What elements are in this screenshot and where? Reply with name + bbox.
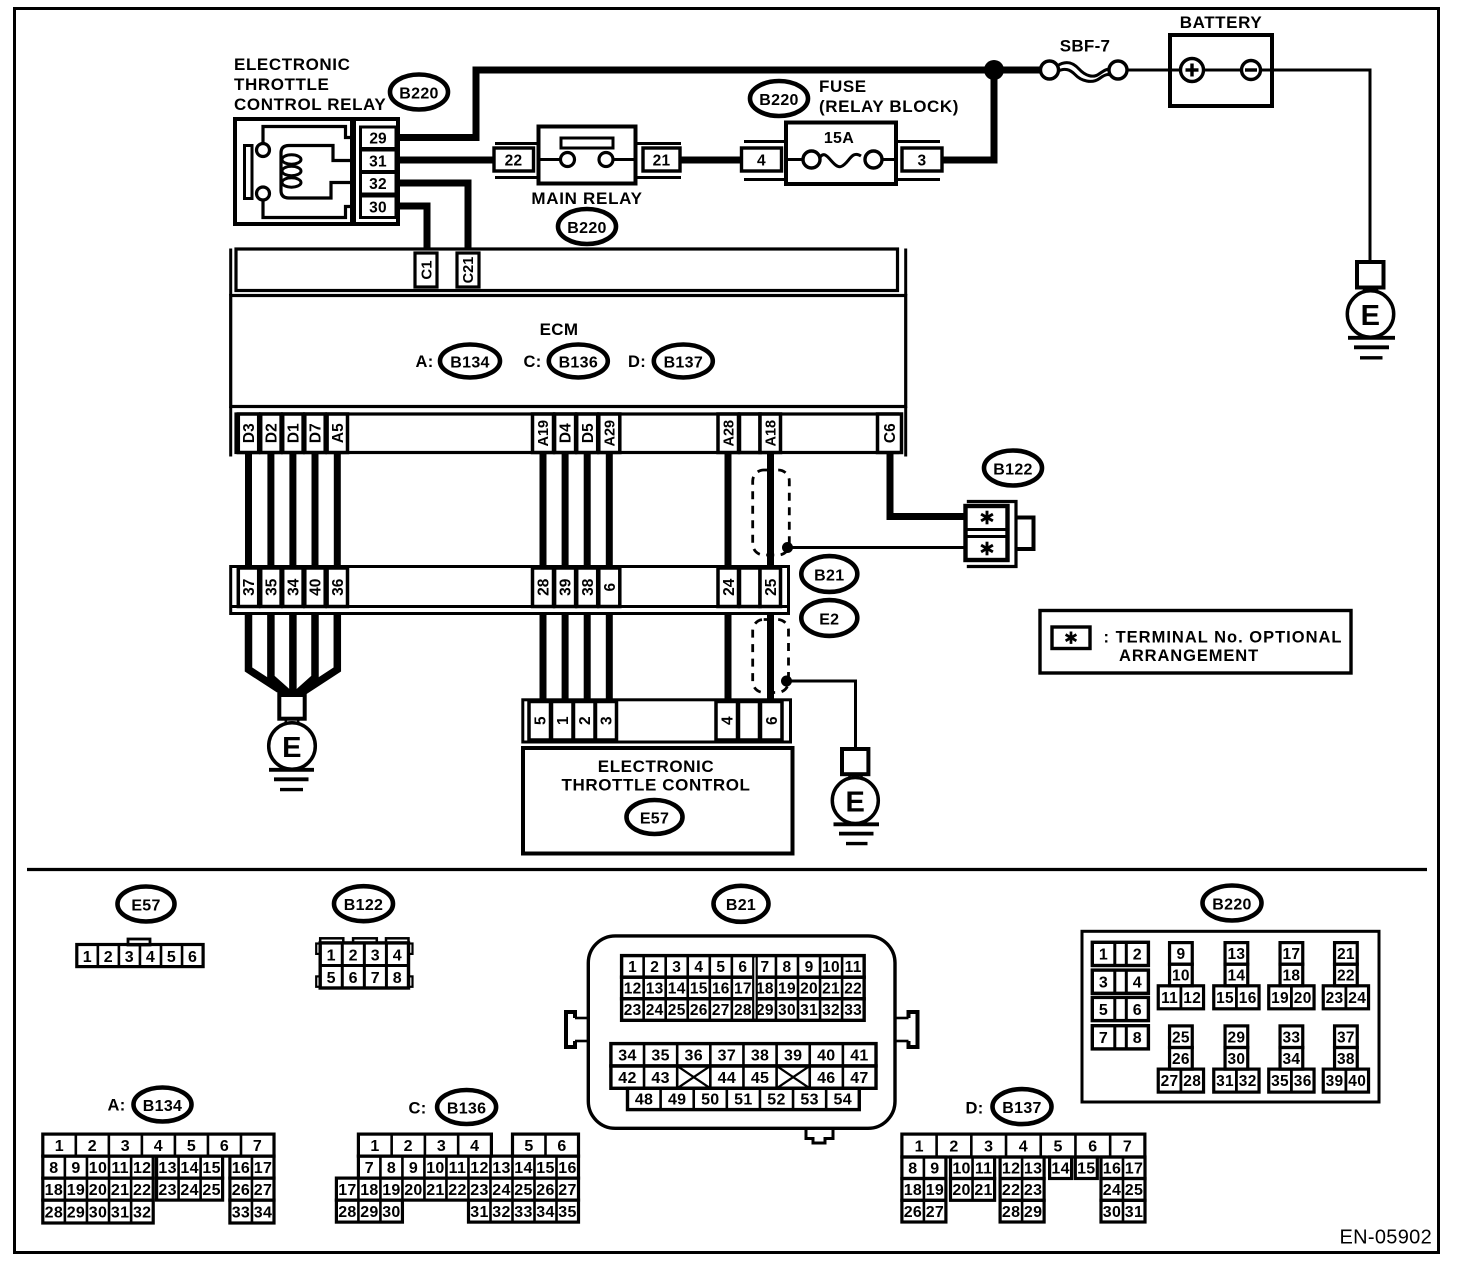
B220 pin cluster 33-36 xyxy=(1269,1026,1314,1092)
terminal 22 rails xyxy=(495,144,538,178)
svg-text:10: 10 xyxy=(89,1160,107,1177)
svg-text:10: 10 xyxy=(1172,968,1190,985)
svg-text:34: 34 xyxy=(618,1048,636,1065)
wire: relay 29 to battery bus xyxy=(396,70,1044,138)
svg-text:29: 29 xyxy=(369,130,387,147)
ECM connector labels A:B134 C:B136 D:B137 xyxy=(415,345,712,378)
svg-text:C:: C: xyxy=(523,353,541,371)
B21/E2 pin 37 xyxy=(238,568,258,607)
svg-text:52: 52 xyxy=(767,1092,785,1109)
wire: B21 25 to E57 6 xyxy=(767,614,774,702)
svg-text:28: 28 xyxy=(1002,1204,1020,1221)
svg-text:6: 6 xyxy=(349,970,358,987)
relay terminal strip xyxy=(354,119,398,224)
terminal 22 xyxy=(494,148,534,171)
svg-text:27: 27 xyxy=(712,1002,730,1019)
optional terminal arrangement box (25-6) xyxy=(753,620,789,693)
wire: E2 35 to ground xyxy=(271,614,290,695)
svg-text:B220: B220 xyxy=(759,92,798,109)
svg-text:28: 28 xyxy=(1183,1073,1201,1090)
svg-text:ECM: ECM xyxy=(540,320,579,339)
svg-text:4: 4 xyxy=(1133,974,1142,991)
connector view E57 body xyxy=(77,939,203,967)
terminal 32 xyxy=(361,173,397,195)
svg-text:D4: D4 xyxy=(558,423,575,443)
svg-text:5: 5 xyxy=(716,959,725,976)
svg-text:50: 50 xyxy=(701,1092,719,1109)
svg-text:E: E xyxy=(282,732,302,764)
svg-text:1: 1 xyxy=(370,1138,379,1155)
connector view B134 body xyxy=(43,1134,274,1223)
svg-text:A18: A18 xyxy=(763,420,779,447)
svg-text:35: 35 xyxy=(651,1048,669,1065)
svg-text:E57: E57 xyxy=(131,897,160,914)
svg-text:36: 36 xyxy=(1294,1073,1312,1090)
svg-text:19: 19 xyxy=(67,1182,85,1199)
svg-text:14: 14 xyxy=(1227,968,1245,985)
connector label B220 (main relay) xyxy=(558,209,616,244)
B220 pins 1-8 xyxy=(1092,942,1148,1049)
optional terminal arrangement box (A18-25) xyxy=(753,470,790,555)
svg-text:21: 21 xyxy=(653,153,671,170)
svg-text:29: 29 xyxy=(1024,1204,1042,1221)
junction node to ground E xyxy=(781,676,792,687)
svg-text:24: 24 xyxy=(646,1002,664,1019)
svg-text:5: 5 xyxy=(524,1138,533,1155)
svg-text:2: 2 xyxy=(949,1138,958,1155)
svg-text:46: 46 xyxy=(817,1070,835,1087)
B220 pin cluster 37-40 xyxy=(1323,1026,1368,1092)
B21/E2 pin 39 xyxy=(555,568,576,607)
svg-text:4: 4 xyxy=(1019,1138,1028,1155)
svg-text:25: 25 xyxy=(202,1182,220,1199)
E57 pin 2 xyxy=(574,702,596,741)
svg-text:22: 22 xyxy=(505,153,523,170)
wire: main relay 21 to fuse 4 xyxy=(681,157,742,164)
svg-text:3: 3 xyxy=(1099,974,1108,991)
svg-text:39: 39 xyxy=(1326,1073,1344,1090)
svg-text:40: 40 xyxy=(308,579,325,596)
junction node to B122 pin xyxy=(782,542,793,553)
fuse terminal 4 rails xyxy=(744,142,786,180)
svg-text:8: 8 xyxy=(1133,1030,1142,1047)
svg-text:1: 1 xyxy=(915,1138,924,1155)
wire: ECM A19 to B21 28 xyxy=(540,453,547,568)
svg-text:E2: E2 xyxy=(819,611,839,628)
fusible link SBF-7 xyxy=(1041,61,1128,81)
svg-text:ELECTRONIC: ELECTRONIC xyxy=(234,55,351,74)
svg-text:3: 3 xyxy=(672,959,681,976)
svg-text:23: 23 xyxy=(1024,1182,1042,1199)
svg-text:E: E xyxy=(845,786,865,818)
svg-text:21: 21 xyxy=(822,981,840,998)
svg-text:7: 7 xyxy=(1123,1138,1132,1155)
ground E (throttle) xyxy=(832,749,879,844)
relay contact bracket xyxy=(245,146,253,199)
svg-text:15: 15 xyxy=(1077,1161,1095,1178)
B220 pin cluster 29-32 xyxy=(1214,1026,1259,1092)
svg-text:29: 29 xyxy=(1227,1029,1245,1046)
svg-text:17: 17 xyxy=(1125,1161,1143,1178)
svg-text:29: 29 xyxy=(360,1204,378,1221)
svg-text:11: 11 xyxy=(449,1160,467,1177)
svg-text:27: 27 xyxy=(1161,1073,1179,1090)
svg-text:C1: C1 xyxy=(418,260,435,279)
terminal 21 xyxy=(643,148,680,171)
svg-text:30: 30 xyxy=(778,1002,796,1019)
svg-text:38: 38 xyxy=(580,578,597,596)
svg-text:1: 1 xyxy=(628,959,637,976)
svg-text:9: 9 xyxy=(409,1160,418,1177)
ECM pin A18 xyxy=(760,414,781,453)
connector B122 shell xyxy=(967,502,1034,567)
svg-text:C6: C6 xyxy=(882,423,899,443)
label: ELECTRONIC THROTTLE CONTROL RELAY xyxy=(234,55,386,114)
svg-text:10: 10 xyxy=(952,1161,970,1178)
svg-text:34: 34 xyxy=(254,1204,272,1221)
svg-text:25: 25 xyxy=(763,578,780,596)
wire: ECM D1 to E2 34 xyxy=(289,453,296,568)
B21 shell bottom tab xyxy=(806,1128,833,1143)
svg-text:D3: D3 xyxy=(241,423,258,443)
svg-text:7: 7 xyxy=(371,970,380,987)
svg-text:2: 2 xyxy=(1133,947,1142,964)
svg-text:32: 32 xyxy=(822,1002,840,1019)
wire: relay 32 to ECM C21 xyxy=(396,183,468,250)
svg-text:15: 15 xyxy=(1216,990,1234,1007)
E57 pin 4 xyxy=(716,702,738,741)
svg-text:21: 21 xyxy=(426,1182,444,1199)
svg-text:2: 2 xyxy=(404,1138,413,1155)
svg-text:3: 3 xyxy=(121,1138,130,1155)
svg-text:ELECTRONIC: ELECTRONIC xyxy=(598,757,715,776)
relay contact wiring to pin 29 xyxy=(263,127,355,144)
svg-text:4: 4 xyxy=(470,1138,479,1155)
B21/E2 pin 28 xyxy=(533,568,554,607)
svg-text:26: 26 xyxy=(1172,1051,1190,1068)
svg-text:C21: C21 xyxy=(461,257,477,284)
svg-text:28: 28 xyxy=(536,578,553,596)
B21/E2 pin 6 xyxy=(599,568,620,607)
label: FUSE (RELAY BLOCK) xyxy=(819,77,959,116)
wire: E2 36 to ground xyxy=(299,614,337,695)
svg-text:A:: A: xyxy=(107,1097,125,1115)
svg-text:30: 30 xyxy=(382,1204,400,1221)
svg-text:1: 1 xyxy=(327,947,336,964)
svg-text:6: 6 xyxy=(1088,1138,1097,1155)
main relay contact bar xyxy=(561,138,613,148)
B21 pin grid 34-47 xyxy=(611,1044,876,1089)
svg-text:29: 29 xyxy=(756,1002,774,1019)
svg-text:47: 47 xyxy=(850,1070,868,1087)
svg-text:20: 20 xyxy=(89,1182,107,1199)
svg-text:39: 39 xyxy=(784,1048,802,1065)
svg-text:A28: A28 xyxy=(721,420,737,447)
wire: B21 28 to E57 5 xyxy=(540,614,547,702)
svg-text:28: 28 xyxy=(338,1204,356,1221)
fuse terminal 3 rails xyxy=(897,142,940,180)
svg-text:22: 22 xyxy=(448,1182,466,1199)
svg-text:8: 8 xyxy=(783,959,792,976)
svg-text:C:: C: xyxy=(408,1100,426,1118)
svg-text:30: 30 xyxy=(1227,1051,1245,1068)
connector view B220 box xyxy=(1082,931,1379,1102)
connector view label B21 xyxy=(714,886,769,922)
svg-text:E: E xyxy=(1361,300,1381,332)
svg-text:37: 37 xyxy=(718,1048,736,1065)
svg-text:37: 37 xyxy=(241,579,258,596)
svg-text:14: 14 xyxy=(668,981,686,998)
wire: junction to ground E xyxy=(787,681,856,749)
svg-text:33: 33 xyxy=(232,1204,250,1221)
relay contact terminal circles xyxy=(257,144,270,201)
svg-text:7: 7 xyxy=(760,959,769,976)
wire: ECM A28 to B21 24 xyxy=(725,453,732,568)
connector strip E57 xyxy=(523,700,791,742)
svg-text:29: 29 xyxy=(67,1204,85,1221)
svg-text:E57: E57 xyxy=(640,810,669,827)
relay contact wiring to pin 30 xyxy=(263,200,355,218)
connector label E57 xyxy=(627,800,683,834)
svg-text:6: 6 xyxy=(764,716,781,725)
svg-text:3: 3 xyxy=(371,947,380,964)
svg-text:35: 35 xyxy=(1271,1073,1289,1090)
ECM pin C21 xyxy=(457,253,479,287)
svg-text:10: 10 xyxy=(822,959,840,976)
ECM pin D5 xyxy=(577,414,598,453)
connector view label A: B134 xyxy=(107,1088,191,1122)
svg-text:8: 8 xyxy=(908,1161,917,1178)
svg-text:25: 25 xyxy=(514,1182,532,1199)
svg-text:5: 5 xyxy=(532,716,549,725)
B220 pin cluster 21-24 xyxy=(1323,943,1368,1009)
wire: E2 37 to ground xyxy=(249,614,288,695)
svg-text:30: 30 xyxy=(1103,1204,1121,1221)
svg-text:27: 27 xyxy=(558,1182,576,1199)
B21 pin grid 48-54 xyxy=(628,1088,860,1109)
wire: relay 31 to main relay 22 xyxy=(396,157,494,164)
svg-text:12: 12 xyxy=(1183,990,1201,1007)
battery box xyxy=(1170,35,1272,106)
ECM pin D3 xyxy=(238,414,258,453)
ECM pin A19 xyxy=(533,414,554,453)
svg-text:28: 28 xyxy=(734,1002,752,1019)
svg-text:11: 11 xyxy=(845,959,862,976)
svg-text:33: 33 xyxy=(844,1002,862,1019)
wire: ECM D2 to E2 35 xyxy=(267,453,274,568)
svg-text:6: 6 xyxy=(738,959,747,976)
main relay contact circles xyxy=(540,153,635,167)
connector view B122 body xyxy=(316,938,412,988)
svg-text:30: 30 xyxy=(369,199,387,216)
connector view label B122 xyxy=(334,886,393,921)
svg-text:MAIN RELAY: MAIN RELAY xyxy=(531,189,642,208)
wire: B21 39 to E57 1 xyxy=(562,614,569,702)
svg-text:48: 48 xyxy=(635,1092,653,1109)
svg-text:9: 9 xyxy=(930,1161,939,1178)
svg-text:D7: D7 xyxy=(308,423,325,443)
E57 pin 1 xyxy=(552,702,574,741)
svg-text:2: 2 xyxy=(88,1138,97,1155)
svg-text:4: 4 xyxy=(146,949,155,966)
B21/E2 pin 38 xyxy=(577,568,598,607)
svg-text:D1: D1 xyxy=(285,423,302,443)
svg-text:22: 22 xyxy=(844,981,862,998)
svg-text:: TERMINAL No. OPTIONAL: : TERMINAL No. OPTIONAL xyxy=(1104,629,1343,647)
connector view label B220 xyxy=(1203,886,1262,921)
svg-text:24: 24 xyxy=(1103,1182,1121,1199)
connector label B122 xyxy=(984,451,1042,486)
svg-text:1: 1 xyxy=(1099,947,1108,964)
svg-text:THROTTLE CONTROL: THROTTLE CONTROL xyxy=(561,776,750,795)
svg-text:34: 34 xyxy=(536,1204,554,1221)
svg-text:2: 2 xyxy=(104,949,113,966)
B21/E2 pin 25 xyxy=(760,568,781,607)
svg-text:24: 24 xyxy=(721,578,738,596)
svg-text:16: 16 xyxy=(712,981,730,998)
connector view B136 body xyxy=(336,1134,578,1222)
svg-text:B122: B122 xyxy=(344,897,383,914)
svg-text:6: 6 xyxy=(1133,1002,1142,1019)
svg-text:13: 13 xyxy=(492,1160,510,1177)
wire: ECM D4 to B21 39 xyxy=(562,453,569,568)
svg-text:6: 6 xyxy=(602,583,619,592)
svg-text:25: 25 xyxy=(1172,1029,1190,1046)
svg-text:B137: B137 xyxy=(664,354,703,371)
svg-text:A:: A: xyxy=(415,353,433,371)
svg-text:20: 20 xyxy=(1294,990,1312,1007)
svg-text:4: 4 xyxy=(393,947,402,964)
svg-text:1: 1 xyxy=(83,949,92,966)
svg-text:3: 3 xyxy=(984,1138,993,1155)
svg-text:B136: B136 xyxy=(559,354,598,371)
wire: battery negative to ground E xyxy=(1272,70,1370,262)
svg-text:1: 1 xyxy=(555,716,572,725)
ECM pin C6 xyxy=(878,414,902,453)
svg-text:26: 26 xyxy=(904,1204,922,1221)
ECM pin (blank) xyxy=(740,414,761,453)
svg-text:13: 13 xyxy=(158,1160,176,1177)
B21 shell left ear xyxy=(566,1012,588,1047)
B21/E2 pin 40 xyxy=(305,568,325,607)
svg-text:5: 5 xyxy=(1099,1002,1108,1019)
wire: ECM D7 to E2 40 xyxy=(312,453,319,568)
wire: B21 24 to E57 4 xyxy=(725,614,732,702)
svg-text:16: 16 xyxy=(1239,990,1257,1007)
fuse terminal 4 xyxy=(742,148,782,171)
svg-text:6: 6 xyxy=(557,1138,566,1155)
connector view label D: B137 xyxy=(965,1089,1051,1124)
svg-text:8: 8 xyxy=(393,970,402,987)
svg-text:A5: A5 xyxy=(330,423,347,443)
svg-text:5: 5 xyxy=(187,1138,196,1155)
wire: B21 38 to E57 2 xyxy=(584,614,591,702)
svg-text:17: 17 xyxy=(254,1160,272,1177)
svg-text:16: 16 xyxy=(558,1160,576,1177)
svg-text:51: 51 xyxy=(734,1092,752,1109)
svg-text:A19: A19 xyxy=(536,420,552,447)
svg-text:D5: D5 xyxy=(580,423,597,443)
svg-text:35: 35 xyxy=(558,1204,576,1221)
svg-text:49: 49 xyxy=(668,1092,686,1109)
svg-text:EN-05902: EN-05902 xyxy=(1340,1227,1432,1249)
svg-text:18: 18 xyxy=(1282,968,1300,985)
B21/E2 pin 36 xyxy=(327,568,347,607)
svg-text:24: 24 xyxy=(492,1182,510,1199)
svg-text:27: 27 xyxy=(926,1204,944,1221)
svg-text:B21: B21 xyxy=(814,567,844,584)
svg-text:ARRANGEMENT: ARRANGEMENT xyxy=(1119,647,1259,665)
svg-text:12: 12 xyxy=(470,1160,488,1177)
svg-text:2: 2 xyxy=(650,959,659,976)
svg-text:45: 45 xyxy=(751,1070,769,1087)
svg-text:21: 21 xyxy=(1337,946,1355,963)
ECM upper connector shell xyxy=(231,249,906,296)
wire: junction to B122 lower pin xyxy=(788,546,967,549)
svg-text:7: 7 xyxy=(1099,1030,1108,1047)
main relay box xyxy=(539,127,636,184)
B220 pin cluster 17-20 xyxy=(1269,943,1314,1009)
junction node on bus xyxy=(984,60,1004,80)
svg-text:42: 42 xyxy=(618,1070,636,1087)
connector strip B21/E2 xyxy=(231,567,789,614)
svg-text:3: 3 xyxy=(125,949,134,966)
E57 pin 3 xyxy=(596,702,617,741)
E57 pin 5 xyxy=(529,702,551,741)
svg-text:B134: B134 xyxy=(450,354,489,371)
connector label E2 xyxy=(801,600,857,636)
svg-text:17: 17 xyxy=(1282,946,1300,963)
svg-text:10: 10 xyxy=(426,1160,444,1177)
svg-text:24: 24 xyxy=(1348,990,1366,1007)
svg-text:35: 35 xyxy=(263,578,280,596)
svg-text:24: 24 xyxy=(180,1182,198,1199)
svg-text:23: 23 xyxy=(470,1182,488,1199)
svg-text:15: 15 xyxy=(536,1160,554,1177)
svg-text:31: 31 xyxy=(1216,1073,1234,1090)
B220 pin cluster 9-12 xyxy=(1158,943,1203,1009)
svg-text:18: 18 xyxy=(45,1182,63,1199)
svg-text:31: 31 xyxy=(470,1204,488,1221)
svg-text:D:: D: xyxy=(965,1100,983,1118)
svg-text:8: 8 xyxy=(49,1160,58,1177)
wire: ECM A5 to E2 36 xyxy=(334,453,341,568)
svg-text:23: 23 xyxy=(1326,990,1344,1007)
electronic throttle control box xyxy=(523,748,793,854)
svg-text:B134: B134 xyxy=(143,1098,182,1115)
ECM pin C1 xyxy=(415,253,437,287)
wire: ECM D3 to E2 37 xyxy=(245,453,252,568)
wire: SBF-7 to battery xyxy=(1127,69,1170,72)
wire: E2 34 to ground xyxy=(289,614,297,696)
battery + terminal xyxy=(1181,59,1204,82)
svg-text:11: 11 xyxy=(111,1160,129,1177)
fuse terminal 3 xyxy=(902,148,942,171)
svg-text:13: 13 xyxy=(1024,1161,1042,1178)
connector label B220 (ETC relay) xyxy=(390,75,448,110)
B220 pin cluster 13-16 xyxy=(1214,943,1259,1009)
svg-text:33: 33 xyxy=(514,1204,532,1221)
svg-text:1: 1 xyxy=(55,1138,64,1155)
wire: ECM C6 to B122 xyxy=(890,453,966,517)
B21/E2 pin (blank) xyxy=(740,568,761,607)
svg-text:26: 26 xyxy=(232,1182,250,1199)
legend: terminal no. optional arrangement xyxy=(1040,611,1351,674)
svg-text:20: 20 xyxy=(800,981,818,998)
svg-text:15A: 15A xyxy=(824,130,854,147)
svg-text:31: 31 xyxy=(111,1204,129,1221)
svg-text:14: 14 xyxy=(180,1160,198,1177)
